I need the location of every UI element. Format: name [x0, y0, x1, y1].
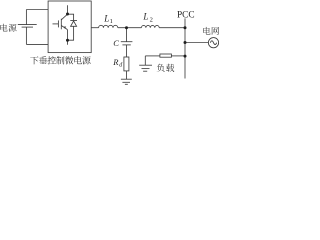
- svg-text:PCC: PCC: [177, 10, 195, 20]
- svg-text:L: L: [103, 14, 109, 24]
- svg-text:2: 2: [150, 16, 153, 23]
- svg-text:R: R: [112, 57, 119, 67]
- svg-text:L: L: [142, 12, 148, 22]
- svg-text:1: 1: [110, 18, 113, 25]
- svg-text:C: C: [113, 38, 119, 48]
